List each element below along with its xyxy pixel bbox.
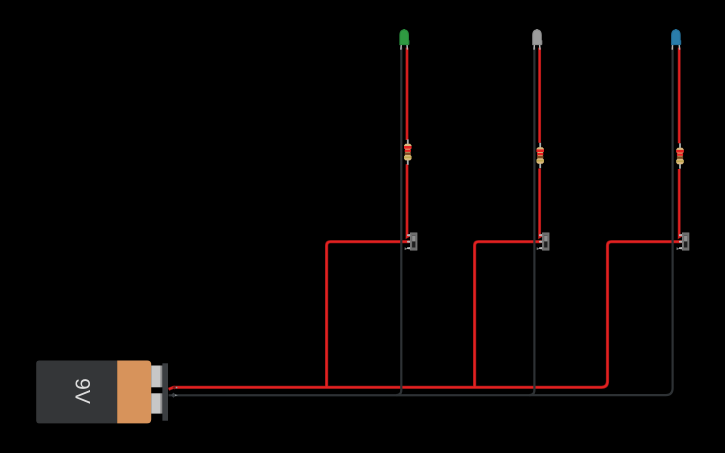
svg-text:9V: 9V xyxy=(70,378,93,404)
